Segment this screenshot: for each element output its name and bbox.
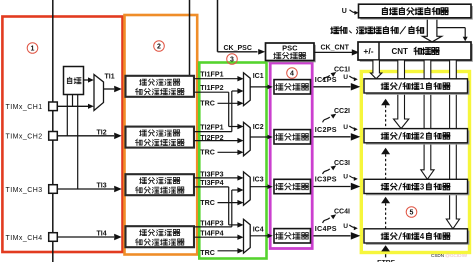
bus CNT to register4 (446, 61, 459, 229)
wire top feed at x189 (189, 0, 191, 77)
label TI3FP3 (200, 171, 223, 179)
block capture/compare register 2 (364, 129, 469, 145)
wire TI2FP2 (194, 138, 244, 143)
signal cluster IC2PS / CC2I / U (314, 108, 361, 141)
block input filter 4 (126, 226, 195, 247)
label circled 3 (227, 54, 238, 65)
label TRC (ch3) (200, 199, 215, 207)
label TI1FP1 (200, 70, 223, 78)
svg-text:CC1I: CC1I (334, 66, 350, 73)
label TI3FP4 (200, 179, 223, 187)
svg-text:TI2FP1: TI2FP1 (200, 123, 223, 131)
svg-text:2: 2 (420, 132, 425, 141)
svg-text:U: U (343, 124, 348, 131)
svg-text:TI1FP1: TI1FP1 (200, 70, 223, 78)
svg-text:2: 2 (157, 43, 161, 50)
block channel prescaler 4 (274, 229, 311, 243)
svg-text:1: 1 (31, 45, 35, 52)
block channel prescaler 3 (274, 179, 311, 193)
wire IC1 out (250, 85, 273, 90)
label IC1 (253, 73, 264, 80)
svg-text:CSDN @GCIDIW: CSDN @GCIDIW (431, 253, 468, 258)
svg-text:TI4: TI4 (97, 231, 107, 238)
svg-text:TRC: TRC (200, 149, 215, 157)
svg-text:+/-: +/- (363, 46, 373, 56)
svg-text:TI2: TI2 (97, 129, 107, 136)
label TI4FP3 (200, 220, 223, 228)
svg-text:1: 1 (420, 82, 425, 91)
signal cluster IC4PS / CC4I / U (314, 209, 361, 240)
xor input stub to CH3 (77, 95, 79, 190)
block capture/compare register 4 (364, 229, 469, 245)
block input filter 1 (126, 76, 195, 97)
region box 4 (prescaler section, magenta) (270, 63, 312, 249)
label TI4FP4 (200, 230, 223, 238)
signal cluster IC3PS / CC3I / U (314, 160, 361, 190)
label circled 4 (287, 68, 298, 79)
svg-text:CNT: CNT (392, 47, 409, 56)
label circled 1 (27, 43, 38, 54)
svg-text:CK_CNT: CK_CNT (321, 45, 350, 52)
dashed arrow register2 to register1 (381, 99, 390, 128)
svg-text:TI4FP4: TI4FP4 (200, 230, 223, 238)
label TI2FP2 (200, 134, 223, 142)
svg-text:5: 5 (410, 209, 414, 216)
block auto-reload register (359, 4, 473, 19)
svg-text:PSC: PSC (282, 43, 298, 52)
pin square TIMx_CH2 (49, 132, 58, 141)
svg-text:TIMx_CH2: TIMx_CH2 (6, 134, 43, 141)
svg-text:IC4PS: IC4PS (315, 224, 337, 233)
wire IC2 out (250, 135, 273, 140)
block channel prescaler 2 (274, 130, 311, 144)
svg-text:IC4: IC4 (253, 226, 264, 233)
wire TI2 (57, 133, 121, 140)
xor input stub to CH2 (66, 95, 68, 136)
label TI4 (97, 231, 107, 238)
block CNT counter (358, 42, 473, 62)
pin square TIMx_CH4 (49, 233, 58, 242)
wire top feed at x53 (52, 0, 54, 262)
label TI3 (97, 183, 107, 190)
svg-text:CK_PSC: CK_PSC (224, 45, 252, 52)
wire TRC to IC1 (218, 101, 244, 106)
svg-text:TI1: TI1 (105, 73, 115, 80)
svg-text:U: U (342, 8, 347, 15)
wire TI1 out (104, 86, 122, 92)
label TRC (ch2) (200, 149, 215, 157)
wire TI4 (57, 234, 121, 240)
bus CNT to register2 (394, 61, 409, 129)
label IC3 (253, 176, 264, 183)
svg-text:TRC: TRC (200, 99, 215, 107)
svg-text:TRC: TRC (200, 199, 215, 207)
svg-text:U: U (343, 174, 348, 181)
wire TI3FP4 cross down (194, 187, 244, 228)
svg-text:TIMx_CH4: TIMx_CH4 (6, 235, 43, 242)
pin label TIMx_CH4 (6, 235, 43, 242)
xor box (64, 67, 84, 95)
label TI2FP1 (200, 123, 223, 131)
svg-text:U: U (343, 223, 348, 230)
label circled 5 (406, 207, 417, 218)
svg-text:IC2: IC2 (253, 124, 264, 131)
label CK_PSC (224, 45, 252, 52)
svg-text:TI3FP4: TI3FP4 (200, 179, 223, 187)
block input filter 3 (126, 174, 195, 195)
wire TRC to IC2 (218, 150, 244, 155)
pin label TIMx_CH1 (6, 104, 43, 111)
label U update (top) (342, 8, 359, 15)
label CK_CNT (321, 45, 350, 52)
label IC4 (253, 226, 264, 233)
svg-text:IC3PS: IC3PS (315, 175, 337, 184)
bus CNT to register3 (421, 61, 434, 180)
wire reload branch right (437, 28, 468, 42)
wire TI4FP3 cross up (194, 187, 244, 227)
mux IC1 (244, 73, 251, 106)
wire TI3FP3 (194, 175, 244, 180)
pin square TIMx_CH3 (49, 185, 58, 194)
svg-text:CC4I: CC4I (334, 209, 350, 216)
svg-text:TIMx_CH3: TIMx_CH3 (6, 187, 43, 194)
wire CK_CNT (314, 49, 359, 55)
svg-text:CC3I: CC3I (334, 160, 350, 167)
wire TI2FP1 cross up (194, 88, 244, 131)
label stop clear up/down (331, 26, 424, 34)
pin label TIMx_CH2 (6, 134, 43, 141)
svg-text:4: 4 (420, 232, 425, 241)
region box 2 (input filter section, orange) (125, 15, 198, 255)
arrow below register4 / ETRF stub (377, 245, 395, 262)
svg-text:TI1FP2: TI1FP2 (200, 84, 223, 92)
label TI2 (97, 129, 107, 136)
mux IC2 (244, 122, 251, 156)
wire IC3 out (250, 184, 273, 189)
svg-text:4: 4 (290, 70, 294, 77)
wire TI3 (57, 186, 121, 192)
svg-text:TRC: TRC (200, 249, 215, 257)
svg-text:3: 3 (230, 56, 234, 63)
dashed arrow register4 to register3 (381, 197, 390, 229)
pin square TIMx_CH1 (49, 102, 58, 111)
wire IC4 out (250, 234, 273, 239)
wire TRC to IC3 (218, 200, 244, 205)
signal cluster IC1PS / CC1I / U (314, 66, 361, 90)
wire TI1FP1 (194, 76, 244, 81)
label TI1 (105, 73, 115, 80)
svg-text:TIMx_CH1: TIMx_CH1 (6, 104, 43, 111)
xor output arrow to TI1 mux (84, 77, 94, 82)
block channel prescaler 1 (274, 80, 311, 94)
block input filter 2 (126, 127, 195, 148)
mux IC3 (244, 172, 251, 205)
svg-text:CC2I: CC2I (334, 108, 350, 115)
label circled 2 (154, 41, 165, 52)
svg-text:U: U (343, 74, 348, 81)
block PSC prescaler (266, 43, 316, 62)
watermark CSDN (431, 253, 468, 258)
wire CK_PSC L-shape (218, 0, 266, 55)
mux IC4 (244, 219, 251, 253)
block capture/compare register 1 (364, 79, 469, 95)
dashed arrow register3 to register2 (381, 148, 390, 179)
region box 1 (pin/XOR section, red) (2, 17, 122, 253)
mux TI1 select (94, 75, 104, 111)
bus CNT to register1 (371, 61, 382, 79)
wire CH1 to mux (57, 104, 94, 109)
svg-text:IC1: IC1 (253, 73, 264, 80)
label IC2 (253, 124, 264, 131)
wire TI1FP2 cross down (194, 92, 244, 129)
label TRC (ch4) (200, 249, 215, 257)
block capture/compare register 3 (364, 179, 469, 195)
svg-text:3: 3 (420, 182, 425, 191)
label TI1FP2 (200, 84, 223, 92)
hollow arrow auto-reload to counter (423, 20, 442, 42)
pin label TIMx_CH3 (6, 187, 43, 194)
xor input stub to CH1 (72, 95, 74, 107)
wire TRC to IC4 (218, 248, 244, 253)
label TRC (ch1) (200, 99, 215, 107)
region box 3 (IC mux section, green) (199, 63, 266, 259)
wire TI4FP4 (194, 235, 244, 240)
svg-text:IC2PS: IC2PS (315, 125, 337, 134)
region box 5 (capture register section, yellow) (361, 72, 469, 253)
svg-text:TI3: TI3 (97, 183, 107, 190)
svg-text:IC3: IC3 (253, 176, 264, 183)
